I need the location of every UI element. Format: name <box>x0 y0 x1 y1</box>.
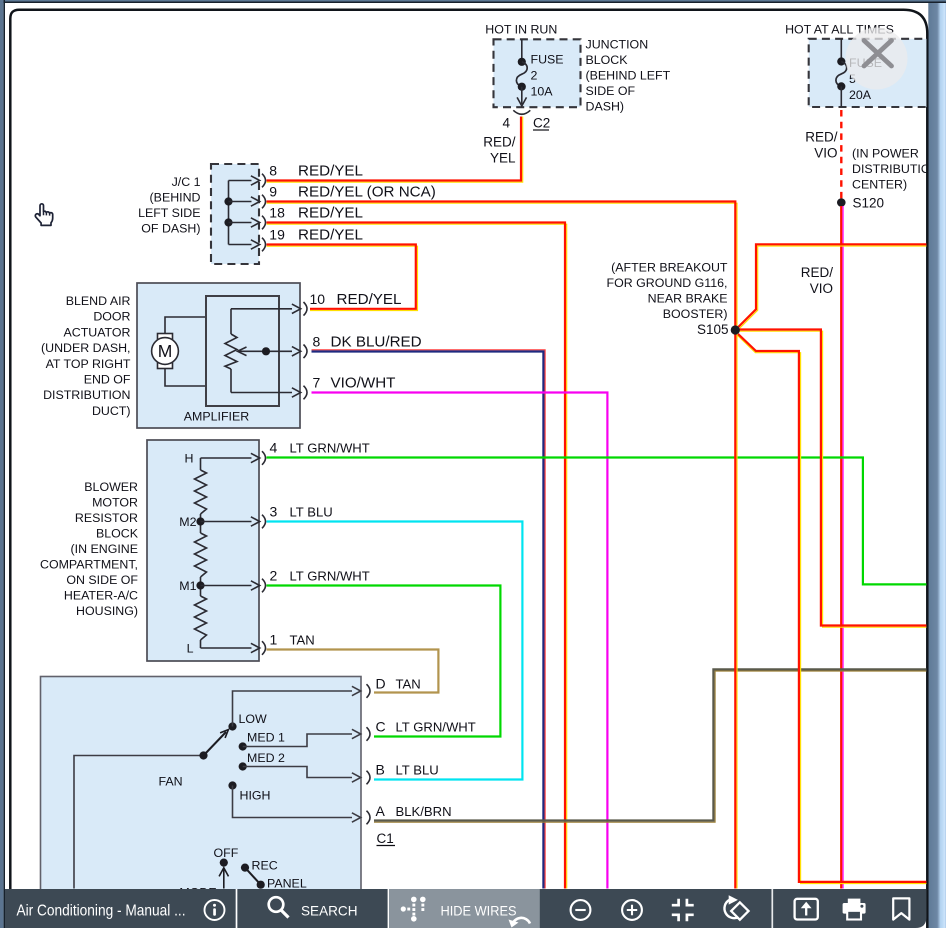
potentiometer element <box>225 334 237 369</box>
svg-text:2: 2 <box>270 568 278 584</box>
svg-text:M2: M2 <box>179 515 196 529</box>
motor M1 wiring top <box>165 317 206 334</box>
PDC fuse box (dashed, clipped at right) <box>809 39 939 107</box>
fan switch common feed <box>74 756 204 889</box>
svg-text:D: D <box>376 676 386 692</box>
svg-text:PANEL: PANEL <box>267 877 307 891</box>
zoom in icon <box>622 900 642 920</box>
fan MED 1 wire to pin C <box>243 734 352 747</box>
window frame left band <box>0 0 4 928</box>
potentiometer wiper to pin 8 <box>238 350 292 352</box>
svg-text:OFF: OFF <box>214 846 239 860</box>
fuse 5 element <box>837 57 845 65</box>
svg-text:OF DASH): OF DASH) <box>141 222 200 236</box>
fit screen icon <box>672 899 694 921</box>
svg-text:REC: REC <box>252 859 278 873</box>
svg-text:NEAR BRAKE: NEAR BRAKE <box>648 292 728 306</box>
svg-text:JUNCTION: JUNCTION <box>586 38 649 52</box>
svg-text:BLEND AIR: BLEND AIR <box>66 294 131 308</box>
fan MED 2 contact <box>239 762 247 770</box>
undo curved arrow <box>512 918 530 926</box>
svg-text:(BEHIND: (BEHIND <box>150 191 201 205</box>
bottom toolbar <box>5 889 926 928</box>
mode switch OFF contact <box>220 859 228 867</box>
svg-text:1: 1 <box>270 632 278 648</box>
fuse 5 lead top <box>840 39 842 61</box>
svg-text:DISTRIBUTION: DISTRIBUTION <box>852 162 939 176</box>
blower motor resistor block box <box>147 440 259 661</box>
svg-text:C2: C2 <box>533 116 550 131</box>
svg-text:(UNDER DASH,: (UNDER DASH, <box>41 341 131 355</box>
svg-text:H: H <box>185 452 194 466</box>
svg-text:4: 4 <box>270 440 278 456</box>
svg-text:MED 1: MED 1 <box>247 731 285 745</box>
svg-text:4: 4 <box>502 116 510 131</box>
svg-text:AT TOP RIGHT: AT TOP RIGHT <box>46 357 131 371</box>
svg-text:LT GRN/WHT: LT GRN/WHT <box>290 441 370 456</box>
svg-text:BLK/BRN: BLK/BRN <box>396 804 452 819</box>
wire RED/YEL pin18 down <box>267 224 567 888</box>
fan switch arm <box>204 732 227 756</box>
svg-text:ACTUATOR: ACTUATOR <box>63 325 130 339</box>
svg-text:A: A <box>376 803 386 819</box>
svg-text:FUSE: FUSE <box>531 53 564 67</box>
blend air door actuator box <box>137 283 300 428</box>
svg-text:18: 18 <box>269 205 285 221</box>
svg-text:2: 2 <box>531 69 538 83</box>
J/C pin 8 branch <box>229 180 252 182</box>
svg-text:HOUSING): HOUSING) <box>76 604 138 618</box>
motor M1 body <box>158 334 173 369</box>
zoom out icon <box>571 900 591 920</box>
bookmark icon <box>893 898 909 919</box>
tap M1 branch <box>196 581 204 589</box>
info icon <box>205 900 225 920</box>
fuse 2 element <box>518 58 526 66</box>
J/C 1 internal bus <box>228 181 230 245</box>
fan HIGH contact <box>228 781 236 789</box>
svg-text:(IN ENGINE: (IN ENGINE <box>71 542 138 556</box>
svg-text:BOOSTER): BOOSTER) <box>663 307 728 321</box>
potentiometer bottom lead to pin 7 <box>231 369 292 393</box>
svg-text:FAN: FAN <box>159 775 183 789</box>
fan switch box <box>41 677 362 895</box>
svg-text:VIO/WHT: VIO/WHT <box>331 375 396 392</box>
separator 1 <box>236 889 238 928</box>
close button translucent circle <box>846 28 908 90</box>
svg-text:8: 8 <box>313 334 321 350</box>
svg-text:LT GRN/WHT: LT GRN/WHT <box>290 569 370 584</box>
rotate icon <box>724 900 739 918</box>
svg-text:COMPARTMENT,: COMPARTMENT, <box>40 557 138 571</box>
svg-text:10A: 10A <box>531 84 554 98</box>
svg-text:S105: S105 <box>697 322 729 337</box>
amplifier inner box <box>206 296 279 406</box>
resistor element M1-L <box>195 596 207 640</box>
svg-text:DUCT): DUCT) <box>92 404 131 418</box>
wire RED/VIO solid (S120 down) <box>842 206 844 889</box>
svg-text:C: C <box>376 719 386 735</box>
svg-text:FOR GROUND G116,: FOR GROUND G116, <box>607 276 728 290</box>
svg-text:3: 3 <box>270 504 278 520</box>
search icon <box>269 897 284 912</box>
tap L branch <box>201 647 252 649</box>
svg-text:M1: M1 <box>179 579 196 593</box>
wire RED/YEL S105 straight down <box>736 334 738 889</box>
svg-text:LT BLU: LT BLU <box>396 763 439 778</box>
fan LOW wire to pin D <box>233 691 353 727</box>
svg-text:DASH): DASH) <box>586 100 625 114</box>
svg-text:END OF: END OF <box>84 373 131 387</box>
share icon <box>795 899 818 920</box>
connector C2 symbol <box>513 110 530 114</box>
resistor pin connectors <box>262 451 266 465</box>
potentiometer top lead to pin 10 <box>231 309 292 334</box>
wire TAN pin1 to fan pin D <box>267 650 439 693</box>
splice node S120 <box>837 198 846 207</box>
svg-text:TAN: TAN <box>290 633 315 648</box>
svg-text:Air Conditioning - Manual ...: Air Conditioning - Manual ... <box>17 903 186 920</box>
svg-text:SEARCH: SEARCH <box>301 903 358 919</box>
svg-text:LEFT SIDE: LEFT SIDE <box>138 206 200 220</box>
svg-text:9: 9 <box>269 184 277 200</box>
svg-text:HEATER-A/C: HEATER-A/C <box>64 588 138 602</box>
J/C pin 9 branch <box>224 197 232 205</box>
print icon <box>843 899 866 920</box>
wire LT BLU pin3 to fan pin B <box>267 522 523 780</box>
svg-text:19: 19 <box>269 227 285 243</box>
fuse 5 lead bottom <box>840 86 842 107</box>
wire RED/YEL S105 branch right then down to edge y626 <box>740 331 927 627</box>
fuse 2 lead top <box>521 39 523 61</box>
svg-text:RED/YEL: RED/YEL <box>298 205 363 222</box>
fuse 2 lead bottom with arrow <box>521 87 523 104</box>
wire LT GRN/WHT pin4 to right edge <box>267 458 927 585</box>
svg-text:B: B <box>376 762 385 778</box>
J/C 1 block (dashed) <box>211 164 259 264</box>
actuator pin connectors <box>304 302 308 316</box>
svg-text:RESISTOR: RESISTOR <box>75 511 138 525</box>
svg-text:HOT IN RUN: HOT IN RUN <box>485 23 557 37</box>
svg-text:7: 7 <box>313 375 321 391</box>
svg-text:TAN: TAN <box>396 677 421 692</box>
window frame right gradient strip <box>928 0 946 928</box>
svg-text:10: 10 <box>310 291 326 307</box>
close button X <box>864 41 892 67</box>
svg-text:MOTOR: MOTOR <box>92 495 138 509</box>
fan MED 1 contact <box>239 742 247 750</box>
wire RED/YEL pin8 to fuse2 <box>267 117 523 183</box>
svg-text:RED/YEL: RED/YEL <box>298 227 363 244</box>
svg-text:AMPLIFIER: AMPLIFIER <box>184 410 249 424</box>
svg-text:BLOWER: BLOWER <box>84 480 138 494</box>
svg-text:VIO: VIO <box>810 281 833 296</box>
svg-text:DISTRIBUTION: DISTRIBUTION <box>43 388 130 402</box>
svg-text:SIDE OF: SIDE OF <box>586 84 636 98</box>
fan MED 2 wire to pin B <box>243 767 352 778</box>
wire RED/VIO dashed segment (fuse 5 to S120) <box>840 110 842 200</box>
wire RED/YEL S105 branch diag down to x799 then edge y882 <box>737 335 927 884</box>
resistor chain vertical leads <box>200 458 202 648</box>
svg-text:HIGH: HIGH <box>240 789 271 803</box>
wire VIO/WHT pin7 down <box>312 393 608 889</box>
svg-text:(BEHIND LEFT: (BEHIND LEFT <box>586 69 671 83</box>
svg-text:C1: C1 <box>377 831 394 846</box>
svg-text:BLOCK: BLOCK <box>586 53 629 67</box>
motor M1 wiring bottom <box>165 368 206 386</box>
wire LT GRN/WHT pin2 to fan pin C <box>267 586 501 737</box>
svg-text:M: M <box>158 341 173 361</box>
hide wires dots icon <box>401 897 426 922</box>
svg-text:RED/: RED/ <box>805 130 838 145</box>
mode switch REC contact and arm <box>241 864 249 872</box>
svg-text:YEL: YEL <box>490 151 516 166</box>
mode switch feed arrow <box>223 870 225 889</box>
svg-text:DOOR: DOOR <box>93 310 130 324</box>
svg-text:8: 8 <box>269 163 277 179</box>
wire RED/YEL pin9 to S105 <box>267 203 738 326</box>
svg-text:DK BLU/RED: DK BLU/RED <box>331 334 422 351</box>
wire RED/YEL S105 branch upper right to edge <box>740 246 927 328</box>
svg-text:(IN POWER: (IN POWER <box>852 147 919 161</box>
svg-text:ON SIDE OF: ON SIDE OF <box>66 573 138 587</box>
tap M2 branch <box>196 517 204 525</box>
fan HIGH wire to pin A <box>233 786 353 818</box>
hide wires section <box>388 889 540 928</box>
separator 2 <box>771 889 773 928</box>
svg-text:RED/: RED/ <box>801 265 834 280</box>
svg-text:MED 2: MED 2 <box>247 751 285 765</box>
svg-text:J/C 1: J/C 1 <box>172 175 201 189</box>
resistor element H-M2 <box>195 470 207 514</box>
wire DK BLU/RED pin8 down <box>312 350 546 889</box>
wire RED/YEL pin19 to actuator pin10 <box>267 246 418 310</box>
fan pin connectors <box>367 684 371 698</box>
svg-text:LT GRN/WHT: LT GRN/WHT <box>396 720 476 735</box>
window frame top band <box>0 0 946 2</box>
svg-text:S120: S120 <box>853 196 885 211</box>
svg-text:RED/YEL (OR NCA): RED/YEL (OR NCA) <box>298 184 436 201</box>
svg-text:LOW: LOW <box>239 712 268 726</box>
svg-text:L: L <box>187 642 194 656</box>
splice node S105 <box>731 325 740 334</box>
svg-text:HIDE WIRES: HIDE WIRES <box>441 904 517 919</box>
svg-text:BLOCK: BLOCK <box>96 526 139 540</box>
svg-text:RED/: RED/ <box>483 135 516 150</box>
svg-text:LT BLU: LT BLU <box>290 505 333 520</box>
J/C pin connectors <box>262 174 266 188</box>
svg-text:20A: 20A <box>849 88 872 102</box>
resistor element M2-M1 <box>195 533 207 577</box>
svg-text:(AFTER BREAKOUT: (AFTER BREAKOUT <box>611 261 728 275</box>
svg-text:CENTER): CENTER) <box>852 178 907 192</box>
tap H branch <box>201 457 252 459</box>
svg-text:VIO: VIO <box>814 146 837 161</box>
cursor hand pointer <box>35 204 52 226</box>
svg-text:RED/YEL: RED/YEL <box>337 291 402 308</box>
J/C pin 18 branch <box>224 218 232 226</box>
junction block fuse box (dashed) <box>494 39 581 107</box>
J/C pin 19 branch <box>229 244 252 246</box>
fan LOW contact <box>228 722 236 730</box>
wire BLK/BRN pin A to right edge <box>374 671 927 822</box>
svg-text:RED/YEL: RED/YEL <box>298 163 363 180</box>
